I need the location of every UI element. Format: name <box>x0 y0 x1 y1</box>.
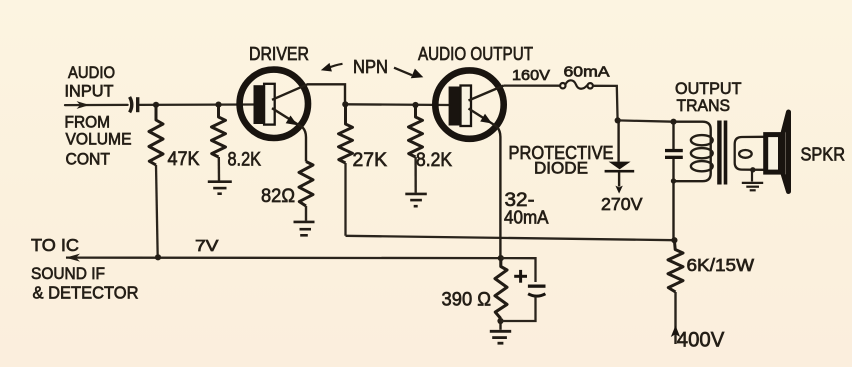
arrow to IC <box>66 254 80 262</box>
svg-text:DIODE: DIODE <box>534 159 588 178</box>
junction node emitter / 390 ohm <box>498 255 504 261</box>
capacitor C1 input coupling <box>130 97 138 113</box>
wire 7V rail to IC <box>66 256 501 259</box>
svg-text:270V: 270V <box>601 194 643 214</box>
transistor Q2 base plate white <box>461 86 472 127</box>
junction node transformer top <box>670 119 676 125</box>
transistor Q2 emitter arrowhead <box>480 114 492 124</box>
resistor 47K <box>149 105 163 165</box>
NPN label arrow left <box>327 64 343 69</box>
svg-text:82Ω: 82Ω <box>261 185 295 207</box>
transistor Q1 emitter stroke <box>272 108 306 161</box>
svg-text:47K: 47K <box>168 148 200 170</box>
capacitor across primary <box>665 122 683 241</box>
wire 8.2K second to ground <box>414 157 417 193</box>
wire input lead <box>65 104 128 106</box>
ground under secondary <box>742 183 763 190</box>
transistor Q2 audio output body <box>435 70 503 138</box>
transistor Q1 driver body <box>240 70 308 138</box>
wire collector to fuse <box>504 84 561 86</box>
resistor 6K 15W <box>668 240 683 292</box>
junction node driver collector / 27K <box>342 101 348 107</box>
svg-text:CONT: CONT <box>66 151 111 169</box>
svg-text:INPUT: INPUT <box>65 83 114 101</box>
ground under 82 ohm <box>294 222 315 235</box>
speaker cone <box>783 112 788 192</box>
fuse 60mA <box>560 80 593 88</box>
svg-text:TRANS: TRANS <box>677 96 731 115</box>
junction node 390 ohm bottom <box>497 318 503 324</box>
svg-text:27K: 27K <box>353 149 388 171</box>
svg-text:8.2K: 8.2K <box>228 150 262 171</box>
input signal arrow <box>77 101 90 109</box>
svg-text:7V: 7V <box>195 238 219 255</box>
svg-text:AUDIO: AUDIO <box>68 64 115 82</box>
svg-text:TO IC: TO IC <box>31 235 79 255</box>
svg-text:NPN: NPN <box>353 56 388 77</box>
wire cap to driver base <box>140 103 254 106</box>
resistor 8.2K first <box>212 105 226 157</box>
transistor Q1 emitter arrowhead <box>286 116 298 126</box>
wire 47K bottom to 7V rail <box>156 165 158 257</box>
protective diode CR1 <box>605 120 635 193</box>
wire 390 ohm bottom to ground <box>499 319 501 330</box>
wire 82 ohm to ground <box>305 206 307 221</box>
svg-text:DRIVER: DRIVER <box>249 43 309 64</box>
svg-text:AUDIO OUTPUT: AUDIO OUTPUT <box>418 43 533 64</box>
svg-text:6K/15W: 6K/15W <box>687 255 755 275</box>
resistor 390 ohm <box>495 258 507 318</box>
transistor Q1 collector stroke <box>272 84 345 104</box>
speaker frame <box>766 135 781 173</box>
ground under 8.2K first <box>208 182 232 194</box>
svg-text:390 Ω: 390 Ω <box>442 289 492 311</box>
wire driver base node to audio output base <box>346 103 449 106</box>
transformer core bars <box>717 121 721 185</box>
svg-text:160V: 160V <box>512 68 550 84</box>
transistor Q2 base plate black <box>449 87 461 126</box>
wire cap bottom to resistor bottom <box>501 296 536 321</box>
transistor Q2 collector stroke <box>469 86 504 101</box>
junction node input / 47K <box>153 102 159 108</box>
wire 6K to 400V terminal <box>674 292 676 344</box>
svg-text:SPKR: SPKR <box>801 145 846 165</box>
junction node 8.2K top <box>215 102 221 108</box>
wire bypass cap branch <box>501 258 536 282</box>
junction node 270V rail / 6K <box>671 237 677 243</box>
ground under 390 ohm <box>490 331 511 343</box>
wire 8.2K to ground <box>218 157 221 181</box>
svg-text:60mA: 60mA <box>564 65 610 81</box>
transistor Q2 emitter stroke <box>469 109 501 259</box>
resistor 8.2K second <box>409 105 423 157</box>
transformer primary winding <box>674 122 713 182</box>
electrolytic capacitor plates <box>528 285 546 288</box>
wire node to transformer node <box>618 120 674 121</box>
resistor 82 ohm <box>299 162 313 207</box>
transistor Q1 base plate white <box>264 84 275 125</box>
svg-text:SOUND IF: SOUND IF <box>31 264 105 283</box>
wire bias rail 27K to 270V node <box>346 236 675 240</box>
junction node secondary ground tap <box>750 167 755 172</box>
resistor 27K <box>339 104 353 163</box>
arrow 400V up <box>671 326 680 338</box>
junction node 8.2K second top <box>412 102 418 108</box>
svg-text:VOLUME: VOLUME <box>66 131 132 149</box>
svg-text:8.2K: 8.2K <box>416 150 452 171</box>
NPN label arrow right <box>394 68 412 76</box>
junction node primary bottom <box>671 178 676 183</box>
wire 27K bottom lead <box>344 163 346 236</box>
svg-text:& DETECTOR: & DETECTOR <box>33 283 139 303</box>
electrolytic capacitor plus sign <box>514 270 527 283</box>
junction node 47K / 7V rail <box>155 254 161 260</box>
junction node fuse/diode <box>615 117 621 123</box>
wire fuse to corner down to node <box>593 86 618 121</box>
ground under 8.2K second <box>405 194 427 206</box>
svg-text:FROM: FROM <box>65 114 111 132</box>
svg-text:40mA: 40mA <box>504 208 549 228</box>
transformer secondary winding <box>735 137 764 170</box>
wire secondary tap to ground <box>751 170 753 182</box>
transistor Q1 base plate black <box>254 85 265 124</box>
svg-text:400V: 400V <box>677 329 725 352</box>
